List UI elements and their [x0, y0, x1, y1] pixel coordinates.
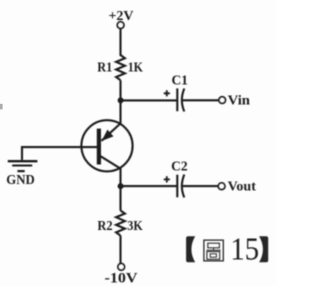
terminal Vin [219, 97, 226, 104]
transistor Q1 emitter arrow [103, 131, 112, 140]
capacitor C1 [177, 88, 184, 111]
svg-text:15: 15 [230, 231, 259, 267]
capacitor C2 [177, 175, 184, 198]
svg-text:C2: C2 [171, 158, 188, 173]
wire: base to ground [22, 147, 97, 160]
figure caption [圖 15] [186, 231, 268, 267]
svg-text:Vout: Vout [228, 180, 257, 195]
svg-text:-10V: -10V [105, 271, 138, 286]
wire: node to C2 [121, 185, 177, 187]
wire: C1 to Vin terminal [182, 99, 219, 101]
wire: node to C1 [121, 99, 177, 101]
transistor Q1 collector line [99, 155, 121, 168]
svg-text:3K: 3K [127, 219, 142, 234]
svg-text:Vin: Vin [228, 94, 251, 109]
wire: node to R2 [119, 186, 121, 211]
polarity + of C1 [164, 90, 170, 96]
transistor Q1 circle [81, 120, 132, 171]
polarity + of C2 [164, 176, 170, 182]
ground symbol [8, 161, 38, 171]
wire: R1 to emitter node [119, 80, 121, 123]
resistor R2 [116, 211, 125, 236]
svg-text:C1: C1 [171, 73, 188, 88]
transistor Q1 emitter line [102, 123, 121, 140]
svg-text:1K: 1K [128, 61, 143, 76]
stray scan mark at left edge [0, 104, 3, 110]
caption bracket right [259, 236, 268, 262]
resistor R1 [116, 55, 125, 80]
terminal -10V [118, 264, 125, 271]
wire: R2 to -10V terminal [119, 236, 121, 264]
caption bracket left [186, 236, 195, 262]
caption glyph 圖 [204, 240, 223, 261]
node: collector junction [118, 183, 124, 189]
svg-text:R1: R1 [97, 61, 112, 76]
svg-text:GND: GND [6, 173, 34, 188]
node: emitter junction [118, 97, 124, 103]
svg-text:R2: R2 [97, 219, 112, 234]
terminal +2V [117, 22, 124, 29]
transistor Q1 base bar [97, 129, 101, 165]
wire: C2 to Vout terminal [182, 185, 218, 187]
wire: +2V terminal to R1 [119, 29, 121, 56]
wire: collector to node [119, 168, 121, 187]
terminal Vout [218, 183, 225, 190]
